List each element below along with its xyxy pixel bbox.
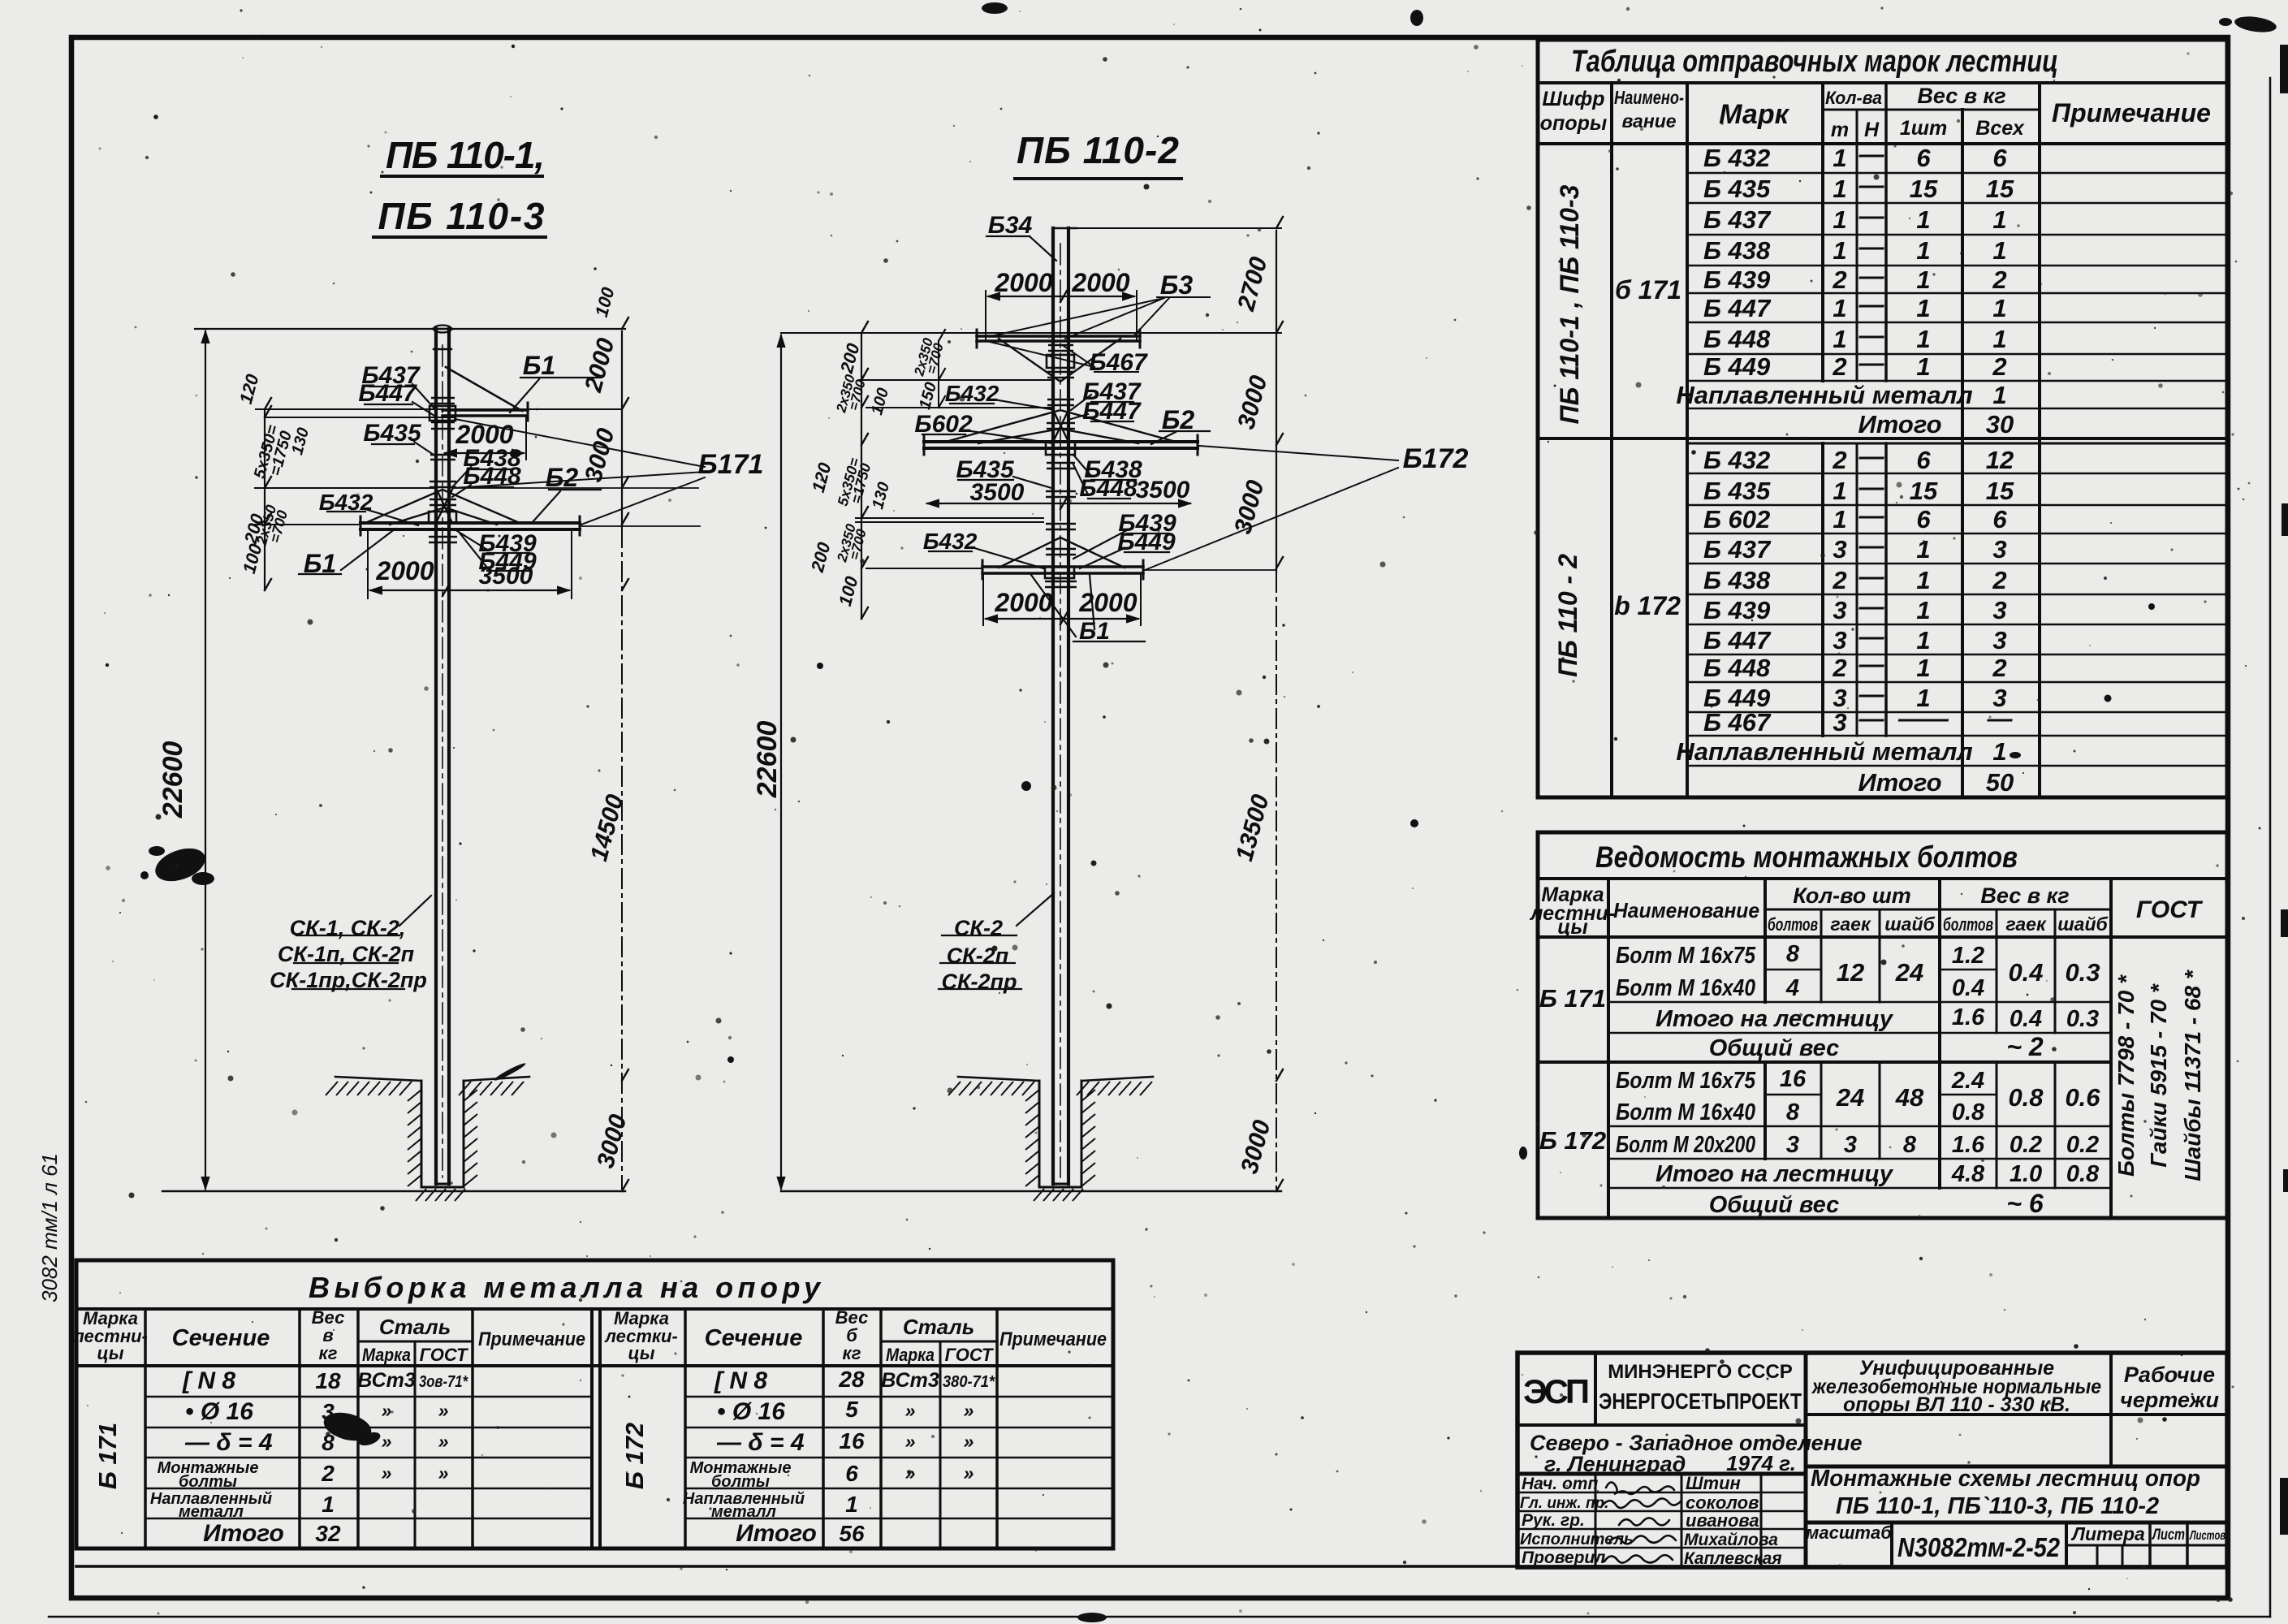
svg-text:гаек: гаек: [2005, 914, 2047, 935]
svg-text:г. Ленинград: г. Ленинград: [1544, 1452, 1686, 1476]
svg-text:b 172: b 172: [1614, 591, 1681, 620]
svg-text:50: 50: [1986, 768, 2014, 797]
svg-text:Итого: Итого: [736, 1520, 817, 1547]
svg-text:1: 1: [1833, 236, 1846, 265]
title block outer: [1517, 1353, 2227, 1567]
svg-text:Листов: Листов: [2189, 1529, 2225, 1543]
svg-text:Лист: Лист: [2151, 1527, 2185, 1544]
svg-text:3: 3: [1992, 596, 2006, 624]
svg-text:Наплавленный металл: Наплавленный металл: [1676, 381, 1972, 409]
table2 rows Б171: [1765, 969, 1997, 971]
svg-text:»: »: [905, 1400, 916, 1421]
svg-text:16: 16: [839, 1428, 865, 1453]
svg-text:1.6: 1.6: [1952, 1132, 1985, 1158]
table1 col Всех: [2038, 83, 2041, 797]
svg-text:Б 171: Б 171: [1539, 984, 1606, 1013]
svg-text:1: 1: [1916, 205, 1930, 234]
svg-text:6: 6: [845, 1461, 858, 1486]
table1 outer box: [1538, 40, 2227, 797]
svg-text:2000: 2000: [375, 556, 434, 585]
table3 left half columns: [144, 1309, 147, 1548]
svg-text:Гл. инж. пр.: Гл. инж. пр.: [1520, 1495, 1608, 1512]
upper crossarm: [442, 410, 528, 416]
svg-text:цы: цы: [1557, 916, 1588, 939]
svg-text:Кол-во шт: Кол-во шт: [1793, 883, 1911, 908]
svg-text:2: 2: [1992, 566, 2006, 594]
svg-text:Б448: Б448: [463, 463, 521, 490]
svg-text:СК-2пр: СК-2пр: [941, 970, 1017, 994]
svg-text:СК-1пр,СК-2пр: СК-1пр,СК-2пр: [270, 968, 427, 992]
right: Унифиц cell bottom: [1806, 1413, 2227, 1416]
svg-text:Б 437: Б 437: [1703, 205, 1772, 234]
svg-text:1: 1: [1916, 535, 1930, 564]
svg-text:—: —: [1858, 290, 1885, 318]
svg-text:Итого: Итого: [1858, 768, 1941, 797]
svg-text:»: »: [382, 1400, 392, 1421]
svg-text:3: 3: [1992, 626, 2006, 654]
svg-text:—: —: [1858, 261, 1885, 290]
svg-text:Итого на лестницу: Итого на лестницу: [1656, 1161, 1894, 1187]
svg-text:Болт М 16х40: Болт М 16х40: [1616, 975, 1755, 1001]
svg-text:24: 24: [1836, 1083, 1864, 1112]
svg-text:Б1: Б1: [304, 549, 336, 578]
svg-text:Б 171: Б 171: [93, 1423, 122, 1489]
svg-text:Б447: Б447: [1082, 398, 1142, 425]
table1 title row line: [1538, 81, 2227, 84]
svg-text:3: 3: [1833, 535, 1846, 564]
svg-text:0.8: 0.8: [1952, 1099, 1985, 1125]
signatures (cursive squiggles): [1601, 1482, 1681, 1562]
svg-text:опоры: опоры: [1540, 112, 1607, 135]
svg-text:Общий вес: Общий вес: [1709, 1035, 1840, 1061]
svg-text:болты: болты: [179, 1473, 237, 1491]
table1 row lines Б172: [1687, 473, 2227, 766]
svg-text:1: 1: [322, 1492, 335, 1517]
svg-text:1: 1: [1992, 205, 2006, 234]
right vertical Рабочие чертежи: [2109, 1353, 2113, 1466]
svg-text:1: 1: [1992, 737, 2006, 766]
svg-text:Михайлова: Михайлова: [1684, 1531, 1778, 1549]
svg-text:Нач. отп: Нач. отп: [1522, 1475, 1598, 1493]
svg-text:3: 3: [1833, 708, 1846, 736]
svg-text:1: 1: [1916, 352, 1930, 381]
svg-text:2: 2: [1992, 654, 2006, 682]
table2 header bottom: [1538, 935, 2227, 939]
svg-text:Проверил: Проверил: [1522, 1548, 1605, 1567]
step dimension chain: [264, 409, 265, 590]
svg-text:48: 48: [1895, 1083, 1924, 1112]
svg-text:• Ø 16: • Ø 16: [717, 1398, 785, 1425]
dim 2000 to crossarm tip: [445, 452, 524, 454]
svg-text:1: 1: [1916, 236, 1930, 265]
svg-text:Б 435: Б 435: [1703, 175, 1771, 203]
svg-text:масштаб: масштаб: [1806, 1522, 1893, 1543]
right pole body: [1053, 228, 1068, 1184]
svg-text:Монтажные схемы лестниц опор: Монтажные схемы лестниц опор: [1811, 1466, 2200, 1492]
svg-text:—: —: [1858, 650, 1885, 678]
svg-text:ВСт3: ВСт3: [357, 1369, 416, 1392]
svg-text:Всех: Всех: [1975, 117, 2025, 140]
svg-text:—: —: [1858, 348, 1885, 377]
svg-text:15: 15: [1986, 175, 2014, 203]
svg-text:1: 1: [845, 1492, 858, 1517]
svg-text:»: »: [438, 1400, 449, 1421]
main vertical divider: [1804, 1353, 1808, 1567]
table2 rows Б172: [1765, 1094, 1997, 1096]
svg-text:Рук. гр.: Рук. гр.: [1522, 1511, 1585, 1530]
svg-text:Исполнитель: Исполнитель: [1520, 1531, 1634, 1548]
svg-text:—: —: [1858, 592, 1885, 620]
svg-text:Марка: Марка: [362, 1345, 411, 1365]
svg-text:шайб: шайб: [1884, 914, 1935, 935]
bottom reference line: [162, 1190, 625, 1192]
table1 header bottom: [1538, 142, 2227, 145]
table3 Сталь split right: [881, 1341, 997, 1343]
svg-text:—: —: [1858, 321, 1885, 349]
svg-text:2000: 2000: [994, 588, 1052, 617]
svg-text:СК-2: СК-2: [954, 916, 1003, 940]
svg-text:• Ø 16: • Ø 16: [185, 1398, 253, 1425]
svg-text:6: 6: [1916, 144, 1931, 172]
label leader lines: [510, 378, 601, 412]
svg-text:Кол-ва: Кол-ва: [1825, 88, 1882, 108]
svg-text:ГОСТ: ГОСТ: [420, 1345, 468, 1365]
svg-text:Б432: Б432: [923, 529, 978, 554]
svg-text:Б 447: Б 447: [1703, 626, 1772, 654]
svg-text:Б 438: Б 438: [1703, 236, 1771, 265]
table3 bottom extra rule: [76, 1565, 2227, 1568]
table1 col T/H: [1856, 110, 1858, 736]
svg-text:2: 2: [1992, 266, 2006, 294]
svg-text:Б432: Б432: [319, 490, 373, 515]
svg-text:Н: Н: [1864, 119, 1880, 141]
svg-text:Ведомость монтажных болтов: Ведомость монтажных болтов: [1595, 840, 2018, 874]
right edge scan marks: [2280, 45, 2288, 1535]
svg-text:Примечание: Примечание: [999, 1328, 1107, 1350]
svg-text:»: »: [964, 1462, 974, 1484]
svg-text:3: 3: [1833, 626, 1846, 654]
bottom dim 2000 / 3500: [370, 590, 569, 591]
svg-text:—: —: [1858, 232, 1885, 261]
svg-text:ПБ 110-1,: ПБ 110-1,: [386, 134, 545, 176]
svg-text:Б 439: Б 439: [1703, 596, 1771, 624]
svg-text:—: —: [1858, 562, 1885, 590]
svg-text:Сталь: Сталь: [379, 1315, 451, 1339]
svg-text:6: 6: [1916, 505, 1931, 533]
table3 half divider double: [590, 1309, 594, 1548]
svg-text:1: 1: [1916, 566, 1930, 594]
svg-text:»: »: [438, 1462, 449, 1484]
svg-text:Примечание: Примечание: [478, 1328, 585, 1350]
svg-text:2.4: 2.4: [1951, 1068, 1984, 1094]
svg-text:—: —: [1858, 704, 1885, 732]
svg-text:1974 г.: 1974 г.: [1726, 1451, 1796, 1475]
ЭСП cell: [1594, 1353, 1597, 1425]
dim 3500+3500: [927, 503, 1190, 504]
svg-text:ПБ 110-1 , ПБ 110-3: ПБ 110-1 , ПБ 110-3: [1555, 184, 1584, 424]
svg-text:0.8: 0.8: [2008, 1083, 2044, 1112]
svg-text:0.8: 0.8: [2066, 1161, 2100, 1187]
table1 col Марк: [1821, 83, 1824, 736]
svg-text:1: 1: [1992, 294, 2006, 322]
level extension lines: [256, 408, 622, 410]
svg-text:—: —: [1858, 501, 1885, 529]
svg-text:Таблица отправочных марок: Таблица отправочных марок лестниц: [1571, 45, 2058, 79]
svg-text:ВСт3: ВСт3: [881, 1369, 939, 1392]
svg-text:Б 449: Б 449: [1703, 352, 1771, 381]
table2 col ГОСТ: [2109, 879, 2113, 1218]
svg-text:цы: цы: [97, 1343, 124, 1363]
svg-text:8: 8: [1786, 941, 1800, 967]
svg-text:2: 2: [1832, 566, 1846, 594]
svg-text:6: 6: [1992, 144, 2007, 172]
svg-text:болтов: болтов: [1943, 914, 1993, 935]
svg-text:»: »: [382, 1431, 392, 1452]
svg-text:Б34: Б34: [988, 212, 1033, 239]
right: Монтажные схемы cell bottom: [1806, 1521, 2227, 1525]
svg-text:болтов: болтов: [1768, 914, 1818, 935]
ground hatching right pole: [948, 1082, 1152, 1201]
svg-text:МИНЭНЕРГО СССР: МИНЭНЕРГО СССР: [1608, 1361, 1793, 1383]
svg-text:Болт М 20х200: Болт М 20х200: [1616, 1132, 1755, 1158]
table2 col гаек-шт: [1879, 909, 1881, 1159]
svg-text:4: 4: [1785, 975, 1799, 1001]
table3 row lines: [145, 1396, 1113, 1397]
svg-text:1.6: 1.6: [1952, 1004, 1985, 1030]
svg-text:Б447: Б447: [358, 380, 417, 407]
top crossarm: [977, 336, 1140, 341]
svg-text:Шайбы 11371 - 68 *: Шайбы 11371 - 68 *: [2180, 970, 2205, 1181]
svg-text:Выборка металла на о: Выборка металла на опору: [309, 1271, 822, 1304]
svg-text:3500: 3500: [479, 563, 533, 590]
svg-text:Болт М 16х40: Болт М 16х40: [1616, 1099, 1755, 1125]
svg-text:Б 448: Б 448: [1703, 654, 1771, 682]
table2 col Марка: [1607, 879, 1610, 1218]
svg-text:Б 467: Б 467: [1703, 708, 1772, 736]
svg-text:Общий вес: Общий вес: [1709, 1192, 1840, 1218]
svg-text:22600: 22600: [752, 721, 783, 799]
svg-text:ПБ 110 - 2: ПБ 110 - 2: [1553, 554, 1582, 677]
svg-text:— δ = 4: — δ = 4: [184, 1429, 273, 1456]
svg-text:Б 172: Б 172: [1539, 1126, 1606, 1155]
svg-text:ПБ 110-2: ПБ 110-2: [1017, 129, 1179, 171]
svg-text:Б449: Б449: [1117, 529, 1176, 555]
svg-text:1: 1: [1916, 294, 1930, 322]
svg-text:кг: кг: [319, 1343, 338, 1363]
svg-text:ГОСТ: ГОСТ: [2136, 896, 2204, 923]
svg-text:2000: 2000: [994, 268, 1052, 297]
svg-text:Б 437: Б 437: [1703, 535, 1772, 564]
svg-text:30: 30: [1986, 410, 2014, 438]
svg-text:»: »: [964, 1400, 974, 1421]
svg-text:1.0: 1.0: [2010, 1161, 2042, 1187]
svg-text:Вес в кг: Вес в кг: [1917, 84, 2005, 108]
svg-text:—: —: [1858, 473, 1885, 501]
svg-text:Б 432: Б 432: [1703, 144, 1770, 172]
svg-text:2: 2: [1992, 352, 2006, 381]
svg-text:~ 2: ~ 2: [2006, 1032, 2044, 1061]
svg-text:0.3: 0.3: [2066, 1006, 2099, 1032]
svg-text:Б 172: Б 172: [620, 1423, 649, 1489]
svg-text:—: —: [1858, 531, 1885, 559]
svg-text:Б602: Б602: [914, 411, 973, 438]
svg-text:т: т: [1831, 119, 1849, 141]
svg-text:Болт М 16х75: Болт М 16х75: [1616, 1068, 1756, 1094]
svg-text:1: 1: [1916, 266, 1930, 294]
svg-text:15: 15: [1910, 175, 1938, 203]
svg-text:——: ——: [1897, 704, 1949, 732]
svg-text:[ N 8: [ N 8: [714, 1367, 767, 1394]
svg-text:СК-1, СК-2,: СК-1, СК-2,: [290, 916, 406, 940]
logo row bottom: [1517, 1423, 1806, 1427]
svg-text:15: 15: [1910, 477, 1938, 505]
svg-text:иванова: иванова: [1686, 1510, 1759, 1531]
top dim 2000+2000: [988, 296, 1134, 297]
table1 data Б172: [1676, 442, 2014, 797]
svg-text:28: 28: [838, 1367, 865, 1392]
svg-text:болты: болты: [711, 1473, 770, 1491]
svg-text:6: 6: [1916, 446, 1931, 474]
svg-text:—: —: [1858, 201, 1885, 230]
svg-text:~ 6: ~ 6: [2006, 1189, 2044, 1218]
svg-text:1: 1: [1916, 596, 1930, 624]
svg-text:Марк: Марк: [1719, 99, 1789, 130]
svg-text:Сечение: Сечение: [172, 1325, 270, 1351]
svg-text:1: 1: [1916, 626, 1930, 654]
table3 data right: [683, 1367, 995, 1547]
svg-text:ГОСТ: ГОСТ: [945, 1345, 994, 1365]
svg-text:СК-1п, СК-2п: СК-1п, СК-2п: [278, 942, 415, 966]
svg-text:Б432: Б432: [945, 381, 999, 406]
table2 col шайб-шт / вес болтов: [1938, 879, 1941, 1188]
foundation pit: [421, 1081, 464, 1187]
svg-text:8: 8: [1903, 1132, 1917, 1158]
table1 data Б171: [1676, 140, 2014, 438]
svg-text:цы: цы: [628, 1343, 655, 1363]
svg-text:Итого: Итого: [203, 1520, 284, 1547]
svg-text:металл: металл: [179, 1503, 244, 1521]
svg-text:1шт: 1шт: [1900, 117, 1947, 140]
svg-text:1: 1: [1992, 381, 2006, 409]
overall height chain 22600: [205, 331, 206, 1189]
svg-text:»: »: [905, 1431, 916, 1452]
svg-text:1.2: 1.2: [1952, 943, 1984, 969]
svg-text:— δ = 4: — δ = 4: [716, 1429, 805, 1456]
svg-text:Б172: Б172: [1403, 443, 1469, 474]
ground line: [335, 1077, 529, 1081]
svg-text:шайб: шайб: [2057, 914, 2108, 935]
bottom reference right pole: [781, 1190, 1281, 1192]
table3 header bottom: [76, 1364, 1113, 1367]
svg-text:1: 1: [1992, 325, 2006, 353]
svg-text:кг: кг: [843, 1343, 861, 1363]
table2 col вес гаек: [1996, 909, 1998, 1188]
right: empty row bottom: [1806, 1465, 2227, 1469]
svg-text:Б1: Б1: [523, 351, 555, 380]
svg-text:Рабочие: Рабочие: [2124, 1363, 2215, 1387]
svg-text:2: 2: [1832, 352, 1846, 381]
address row bottom: [1517, 1472, 1806, 1476]
table2 data: [1539, 941, 2100, 1218]
table3 Сталь split left: [358, 1341, 473, 1343]
pole joint collars left pole: [429, 398, 457, 542]
svg-text:гаек: гаек: [1830, 914, 1871, 935]
table3 title bottom: [76, 1307, 1113, 1311]
lower crossarm: [982, 567, 1143, 573]
svg-text:2000: 2000: [1078, 588, 1137, 617]
table2 outer box: [1538, 832, 2227, 1218]
table1 col 1шт: [1961, 110, 1964, 797]
outer trim line bottom: [49, 1616, 2270, 1618]
crossarm braces: [365, 488, 520, 525]
svg-text:металл: металл: [711, 1503, 777, 1521]
signature cols: [1595, 1474, 1761, 1567]
right pole level lines: [1077, 227, 1281, 229]
svg-text:Литера: Литера: [2070, 1523, 2145, 1544]
table2 subheader split: [1765, 909, 2111, 911]
svg-text:ПБ 110-1, ПБ`110-3, ПБ 110-: ПБ 110-1, ПБ`110-3, ПБ 110-2: [1836, 1493, 2159, 1519]
svg-text:Б2: Б2: [1162, 405, 1195, 434]
ground line right pole: [958, 1077, 1153, 1081]
right pole leaders: [986, 236, 1056, 261]
svg-text:3: 3: [1844, 1132, 1857, 1158]
svg-text:Б3: Б3: [1160, 270, 1194, 300]
svg-text:Б 438: Б 438: [1703, 566, 1771, 594]
svg-text:опоры ВЛ 110 - 330 кВ.: опоры ВЛ 110 - 330 кВ.: [1843, 1393, 2070, 1416]
table1 subheader split: [1823, 109, 2040, 111]
pole joint collars right pole: [1045, 345, 1077, 587]
svg-text:»: »: [964, 1431, 974, 1452]
svg-text:1: 1: [1992, 236, 2006, 265]
table1 col Наименование: [1686, 83, 1689, 797]
svg-text:[ N 8: [ N 8: [182, 1367, 235, 1394]
svg-text:вание: вание: [1621, 110, 1676, 132]
svg-text:2: 2: [1832, 446, 1846, 474]
svg-text:—: —: [1858, 442, 1885, 470]
svg-text:Б2: Б2: [546, 463, 579, 492]
table2 col вес шайб: [2054, 909, 2057, 1188]
top reference line: [195, 328, 625, 330]
right dimension chain: [621, 331, 623, 528]
table1 col Шифр: [1610, 83, 1613, 797]
svg-text:4.8: 4.8: [1951, 1161, 1985, 1187]
svg-text:Марка: Марка: [886, 1345, 935, 1365]
svg-text:N3082тм-2-52: N3082тм-2-52: [1897, 1532, 2061, 1562]
svg-text:Б 435: Б 435: [1703, 477, 1771, 505]
svg-text:16: 16: [1780, 1066, 1807, 1092]
table2 col Наименование: [1763, 879, 1767, 1159]
svg-text:2: 2: [1832, 266, 1846, 294]
svg-text:3500: 3500: [970, 479, 1025, 506]
svg-text:Б448: Б448: [1079, 475, 1138, 502]
svg-text:18: 18: [315, 1368, 341, 1393]
svg-text:15: 15: [1986, 477, 2014, 505]
svg-text:8: 8: [1786, 1099, 1800, 1125]
svg-text:0.6: 0.6: [2065, 1083, 2100, 1112]
svg-text:ПБ 110-3: ПБ 110-3: [378, 195, 545, 237]
pole body: [436, 329, 449, 1184]
svg-text:Б1: Б1: [1079, 618, 1110, 645]
svg-text:3: 3: [1833, 596, 1846, 624]
svg-text:Б 447: Б 447: [1703, 294, 1772, 322]
svg-text:Сечение: Сечение: [705, 1325, 803, 1351]
svg-text:—: —: [1858, 622, 1885, 650]
svg-text:Примечание: Примечание: [2052, 98, 2211, 127]
bottom row cells: [1892, 1522, 2066, 1567]
svg-text:»: »: [382, 1462, 392, 1484]
svg-text:Болт М 16х75: Болт М 16х75: [1616, 943, 1756, 969]
svg-text:Б171: Б171: [698, 449, 764, 480]
